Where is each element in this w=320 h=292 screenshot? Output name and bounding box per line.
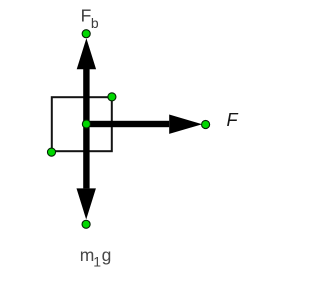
force arrow F (right) [86, 115, 202, 134]
force arrow F_b (up) [77, 38, 96, 124]
label m_1 g [80, 245, 112, 269]
svg-text:F: F [81, 5, 92, 25]
node dot at tip of F_b arrow [82, 30, 90, 38]
node dot at square bottom-left corner [47, 148, 55, 156]
box m1 (square body) [52, 97, 112, 151]
svg-text:F: F [227, 110, 239, 130]
node dot at tip of F arrow [202, 120, 210, 128]
svg-text:g: g [102, 245, 112, 265]
node dot at center of square [82, 120, 90, 128]
label F_b [81, 5, 99, 31]
label F [227, 110, 239, 130]
node dot at square top-right corner [108, 93, 116, 101]
svg-text:b: b [91, 15, 99, 31]
svg-text:m: m [80, 245, 95, 265]
node dot at tip of m_1 g arrow [82, 220, 90, 228]
svg-text:1: 1 [93, 253, 101, 269]
force arrow m_1 g (down) [77, 124, 96, 220]
